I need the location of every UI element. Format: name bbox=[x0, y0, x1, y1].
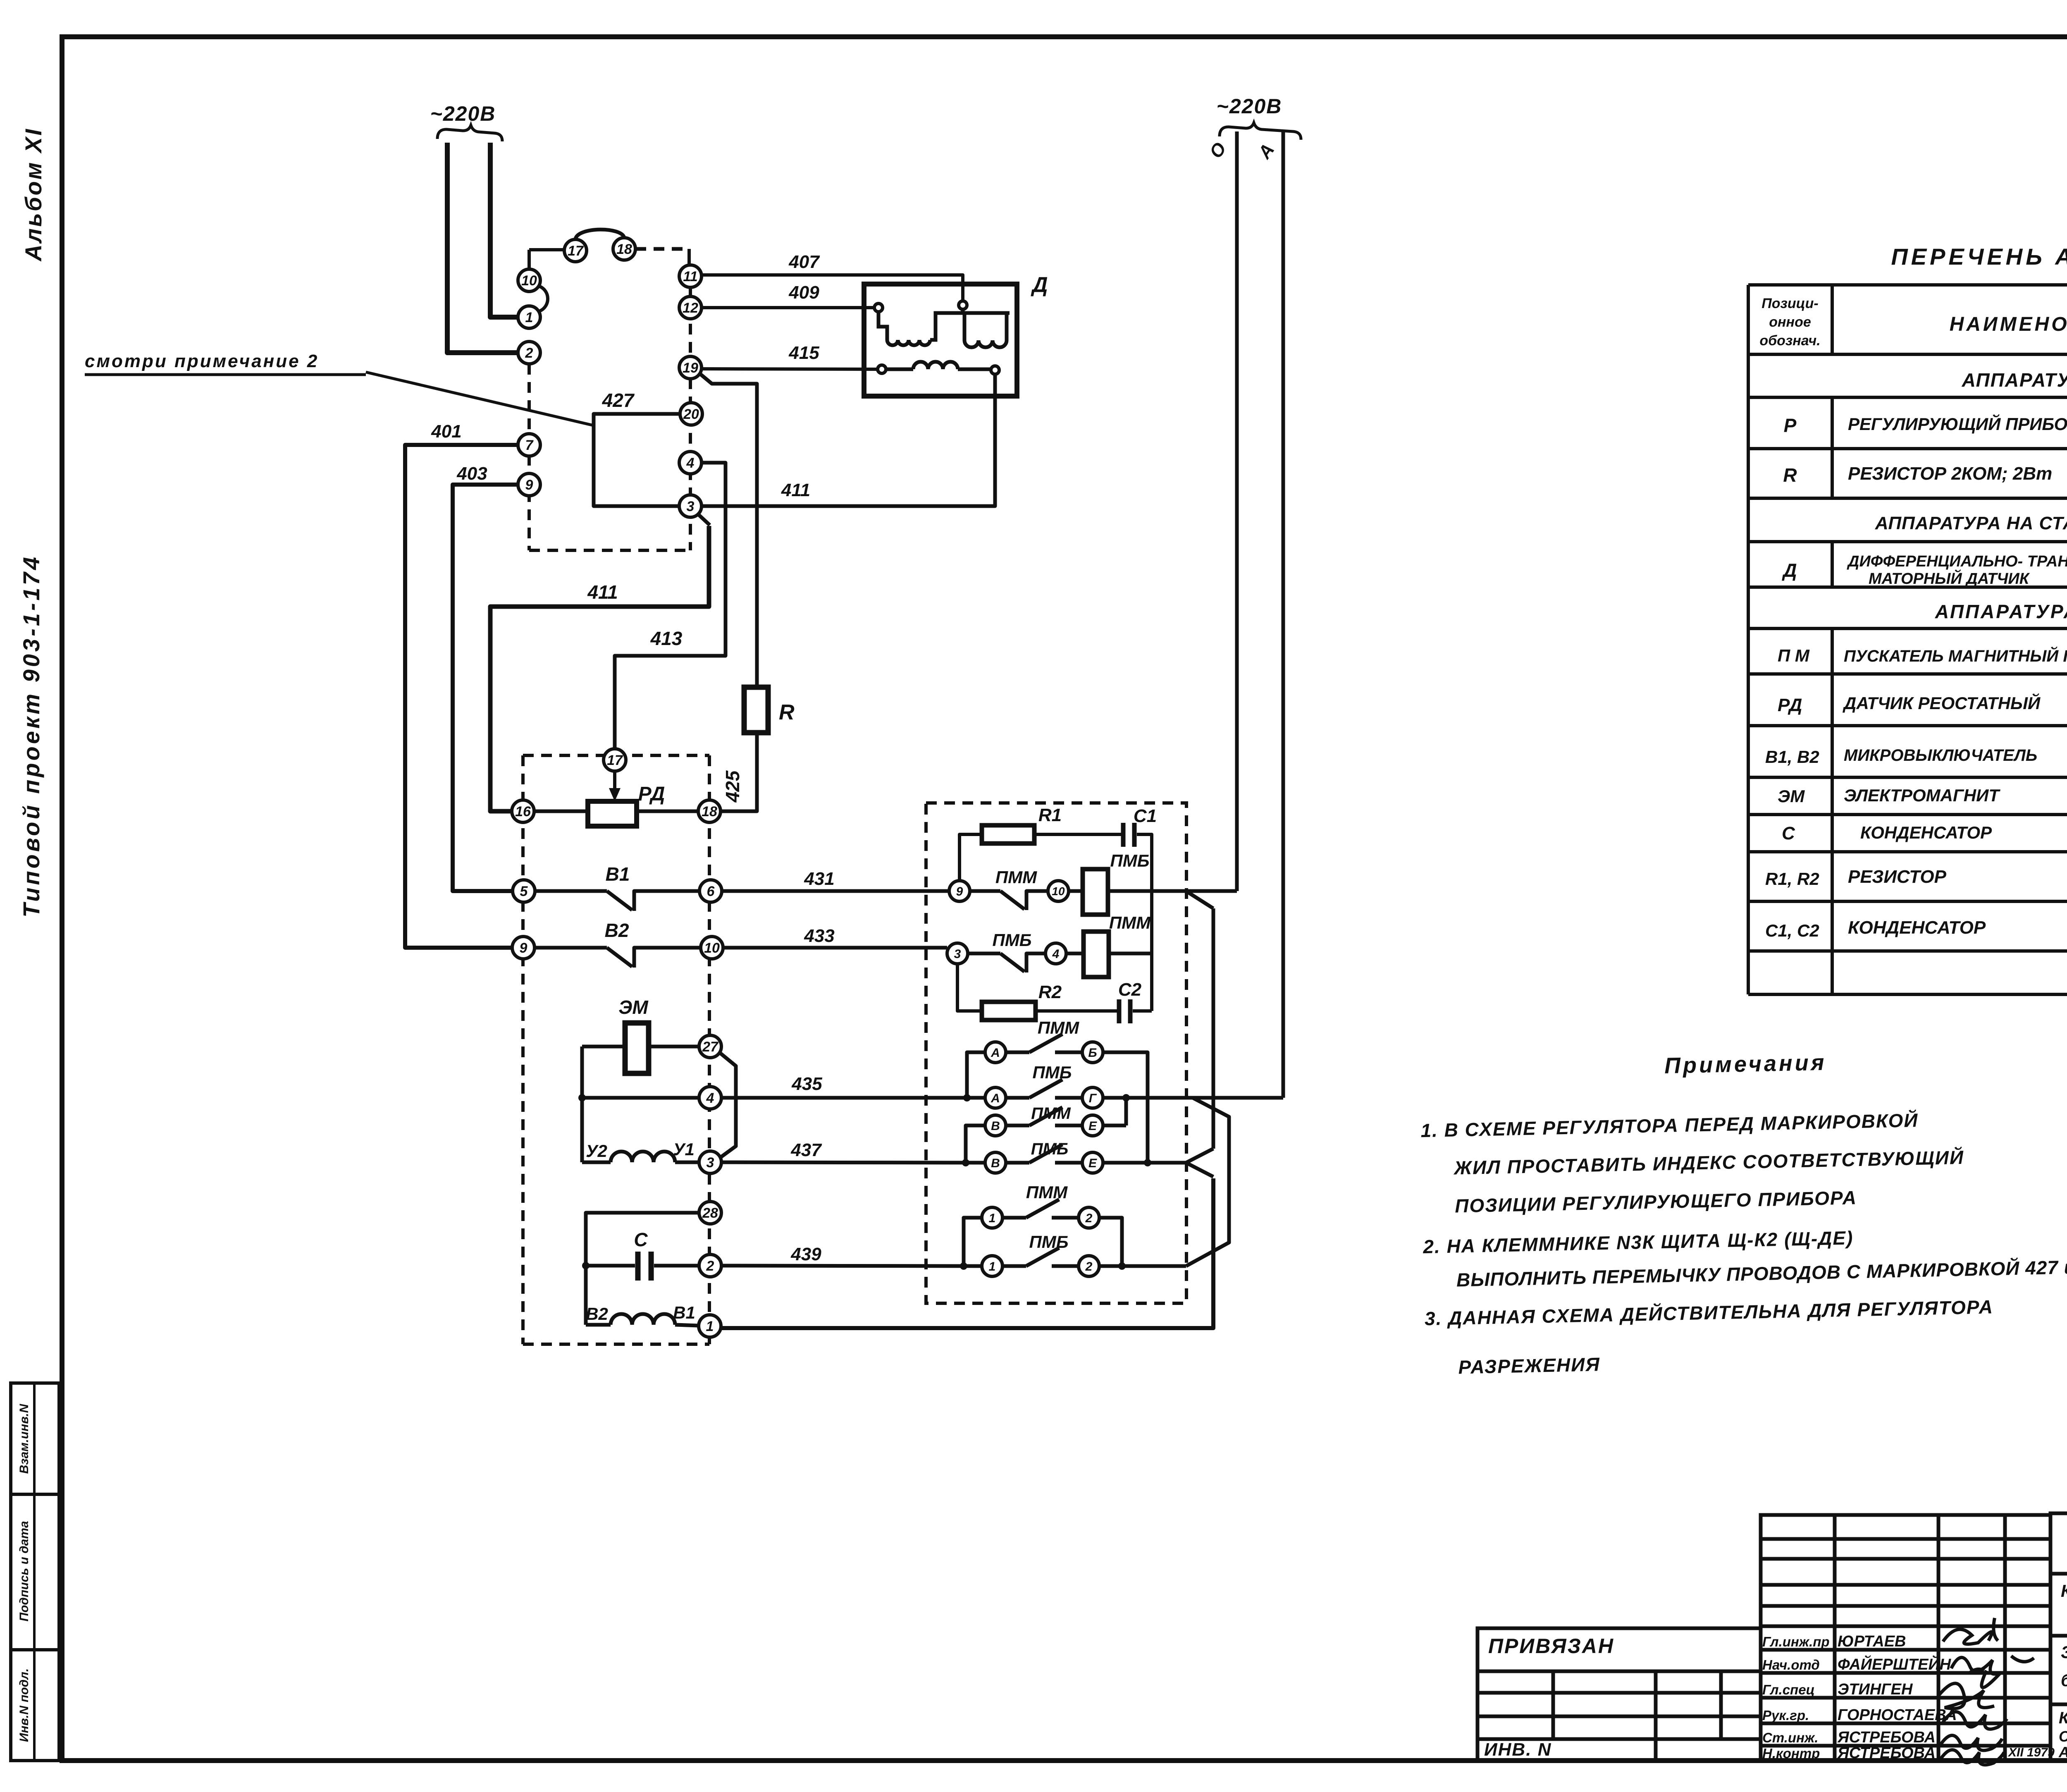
svg-text:смотри примечание 2: смотри примечание 2 bbox=[85, 351, 319, 371]
riser O-net bbox=[1212, 908, 1215, 1149]
svg-text:Взам.инв.N: Взам.инв.N bbox=[17, 1403, 31, 1474]
svg-text:ПММ: ПММ bbox=[1109, 913, 1151, 932]
svg-text:4: 4 bbox=[686, 455, 695, 471]
terminal E1 bbox=[1082, 1115, 1103, 1136]
terminal 17 rd bbox=[604, 749, 626, 771]
terminal A2 bbox=[985, 1087, 1006, 1108]
svg-text:10: 10 bbox=[1052, 885, 1065, 898]
terminal 7 bbox=[518, 434, 540, 456]
svg-text:АППАРАТУРА НА СТАТИВЕ МЕСТН: АППАРАТУРА НА СТАТИВЕ МЕСТНЫХ ПРИБОРОВ bbox=[1875, 513, 2067, 533]
svg-text:409: 409 bbox=[788, 282, 819, 303]
wire 9 to R1 bbox=[960, 834, 982, 880]
wire EM branch vertical bbox=[580, 1047, 584, 1162]
node 411 bbox=[991, 366, 999, 374]
svg-text:431: 431 bbox=[804, 869, 834, 889]
wire 1-2 bbox=[1002, 1216, 1026, 1220]
contact blade 1-2 bbox=[1026, 1199, 1059, 1218]
wire C2 right bbox=[1133, 1009, 1152, 1013]
stamp box vzam.inv bbox=[11, 1383, 59, 1494]
svg-text:В1: В1 bbox=[673, 1303, 695, 1322]
svg-text:ФАЙЕРШТЕЙН: ФАЙЕРШТЕЙН bbox=[1838, 1655, 1952, 1673]
svg-text:R: R bbox=[779, 700, 795, 724]
wire C1-C2 riser bbox=[1137, 834, 1152, 1011]
wire A-B bbox=[1006, 1051, 1029, 1054]
svg-text:НАИМЕНОВАНИЕ: НАИМЕНОВАНИЕ bbox=[1950, 313, 2067, 335]
stamp box inv.n podl bbox=[11, 1650, 59, 1761]
svg-text:17: 17 bbox=[607, 753, 623, 768]
coil B2-B1 bbox=[586, 1314, 698, 1326]
svg-text:433: 433 bbox=[804, 926, 834, 946]
terminal 6 bbox=[699, 880, 722, 902]
terminal 20 bbox=[680, 403, 702, 425]
underline bbox=[85, 373, 366, 376]
svg-text:403: 403 bbox=[456, 464, 487, 484]
wire 431 bbox=[722, 889, 949, 893]
svg-text:П М: П М bbox=[1778, 646, 1810, 665]
svg-text:МИКРОВЫКЛЮЧАТЕЛЬ: МИКРОВЫКЛЮЧАТЕЛЬ bbox=[1844, 746, 2037, 765]
terminal 28 bbox=[699, 1202, 721, 1224]
svg-text:Р: Р bbox=[1784, 415, 1797, 436]
svg-text:4: 4 bbox=[706, 1090, 714, 1106]
wire G to E bbox=[1124, 1098, 1128, 1125]
svg-text:обознач.: обознач. bbox=[1759, 333, 1820, 349]
terminal 18 top bbox=[613, 238, 635, 260]
bracket V bbox=[966, 1125, 985, 1160]
svg-text:ПМБ: ПМБ bbox=[1031, 1140, 1068, 1158]
wire N phase to terminal 1 bbox=[490, 143, 517, 317]
svg-text:R: R bbox=[1783, 464, 1797, 486]
svg-text:407: 407 bbox=[788, 252, 820, 272]
contact blade A-B bbox=[1029, 1034, 1062, 1052]
svg-text:Нач.отд: Нач.отд bbox=[1762, 1657, 1820, 1673]
wire EM to 27 bbox=[649, 1045, 699, 1049]
wire 415 bbox=[702, 369, 878, 369]
capacitor C2 bbox=[1117, 999, 1122, 1023]
wire V-E2 bbox=[1006, 1161, 1029, 1165]
terminal 1 bbox=[518, 306, 540, 328]
wire 433 bbox=[723, 946, 947, 950]
svg-text:19: 19 bbox=[683, 360, 698, 376]
terminal 1a bbox=[982, 1207, 1002, 1228]
svg-text:Е: Е bbox=[1088, 1156, 1097, 1170]
svg-text:РЕГУЛИРУЮЩИЙ ПРИБОР Р25.1.2 ~2: РЕГУЛИРУЮЩИЙ ПРИБОР Р25.1.2 ~220В bbox=[1848, 413, 2067, 434]
dashed terminal strip bottom bbox=[529, 549, 690, 552]
junction bbox=[962, 1159, 969, 1166]
svg-text:С1, С2: С1, С2 bbox=[1765, 921, 1819, 940]
svg-text:РЕЗИСТОР: РЕЗИСТОР bbox=[1848, 867, 1947, 887]
terminal 12 bbox=[679, 296, 702, 319]
svg-text:9: 9 bbox=[956, 885, 963, 898]
svg-text:А: А bbox=[991, 1046, 1000, 1060]
svg-text:СХЕМАЭЛЕКТРИЧЕСКАЯ ПРИНЦИПИ-: СХЕМАЭЛЕКТРИЧЕСКАЯ ПРИНЦИПИ- bbox=[2059, 1728, 2067, 1745]
dashed PM box bbox=[926, 803, 1186, 1303]
dashed mechanism box bbox=[523, 755, 709, 1344]
svg-text:В: В bbox=[991, 1119, 1000, 1133]
bracket B to 437 bbox=[1103, 1052, 1148, 1160]
brace left bbox=[437, 125, 502, 141]
terminal 2 em bbox=[699, 1254, 721, 1277]
node 409 bbox=[874, 303, 883, 312]
svg-text:3: 3 bbox=[707, 1155, 714, 1171]
junction bbox=[1118, 1262, 1126, 1270]
svg-text:Н.контр: Н.контр bbox=[1762, 1746, 1820, 1761]
rheostat RD bbox=[588, 801, 637, 826]
svg-text:ПРИВЯЗАН: ПРИВЯЗАН bbox=[1488, 1634, 1614, 1658]
dashed terminal strip right column bbox=[689, 287, 692, 550]
wire 28 branch bbox=[586, 1213, 699, 1325]
capacitor C bbox=[635, 1252, 641, 1281]
svg-text:ДИФФЕРЕНЦИАЛЬНО- ТРАНСФОР-: ДИФФЕРЕНЦИАЛЬНО- ТРАНСФОР- bbox=[1847, 553, 2067, 570]
svg-text:17: 17 bbox=[568, 243, 584, 259]
svg-text:Позици-: Позици- bbox=[1761, 296, 1818, 311]
svg-text:4: 4 bbox=[1052, 947, 1060, 961]
wire terminal 1 to O-net riser bbox=[721, 1178, 1213, 1328]
wire down to 10 bbox=[527, 250, 531, 269]
svg-text:413: 413 bbox=[650, 628, 683, 649]
junction bbox=[1122, 1094, 1130, 1101]
svg-text:28: 28 bbox=[702, 1205, 718, 1221]
svg-text:АППАРАТУРА НА ЩИТЕ УПРАВ: АППАРАТУРА НА ЩИТЕ УПРАВЛЕНИЯ bbox=[1962, 369, 2067, 391]
wire 403 bbox=[453, 485, 519, 891]
wire to 4 bbox=[1026, 953, 1045, 972]
terminal 10 pm bbox=[1048, 881, 1069, 901]
svg-text:Примечания: Примечания bbox=[1664, 1050, 1827, 1078]
svg-text:2: 2 bbox=[706, 1258, 714, 1274]
jumper arc 17-18 bbox=[575, 229, 624, 239]
wire to 10 bbox=[1026, 891, 1048, 910]
wire PMB to O line bbox=[1108, 889, 1237, 893]
svg-text:ЯСТРЕБОВА: ЯСТРЕБОВА bbox=[1837, 1744, 1936, 1762]
svg-text:Инв.N подл.: Инв.N подл. bbox=[17, 1668, 31, 1742]
wire L phase to terminal 2 bbox=[447, 143, 518, 353]
svg-text:425: 425 bbox=[722, 770, 743, 803]
svg-text:Котельная с 4 котлами DЕ-: Котельная с 4 котлами DЕ-10-14гм. bbox=[2061, 1581, 2067, 1601]
svg-text:С2: С2 bbox=[1118, 980, 1142, 1000]
svg-text:КОНДЕНСАТОР: КОНДЕНСАТОР bbox=[1848, 918, 1986, 938]
terminal V1 bbox=[985, 1115, 1006, 1136]
terminal B bbox=[1082, 1042, 1103, 1063]
contact PMB blade bbox=[1000, 953, 1024, 972]
wire top to terminal 17 bbox=[529, 248, 564, 251]
svg-text:ДАТЧИК РЕОСТАТНЫЙ: ДАТЧИК РЕОСТАТНЫЙ bbox=[1843, 693, 2041, 713]
leader line to 427 jumper bbox=[366, 372, 594, 425]
svg-text:бетонных конструкций: бетонных конструкций bbox=[2061, 1670, 2067, 1690]
svg-text:1: 1 bbox=[989, 1260, 996, 1274]
wire R2 to C2 bbox=[1036, 1009, 1117, 1013]
wire 411 lower bbox=[490, 526, 709, 811]
terminal 4 em bbox=[699, 1087, 721, 1109]
svg-text:А: А bbox=[991, 1092, 1000, 1105]
wire 4 row bbox=[582, 1096, 699, 1100]
wire 425 R to 18 bbox=[721, 733, 757, 811]
svg-text:С1: С1 bbox=[1134, 806, 1157, 826]
wire 411 to sensor bbox=[701, 374, 995, 506]
jumper bracket 10-1 bbox=[539, 286, 548, 311]
svg-text:18: 18 bbox=[616, 241, 632, 257]
svg-text:7: 7 bbox=[525, 437, 534, 453]
svg-text:3: 3 bbox=[954, 947, 961, 961]
svg-text:Е: Е bbox=[1088, 1119, 1097, 1133]
terminal A1 bbox=[985, 1042, 1006, 1063]
terminal 3 em bbox=[699, 1151, 721, 1173]
svg-text:3: 3 bbox=[687, 499, 695, 514]
terminal 9 b2 bbox=[512, 937, 535, 959]
terminal 3 pm bbox=[947, 943, 968, 964]
wire corner down to 11 bbox=[687, 249, 691, 265]
svg-text:В2: В2 bbox=[605, 920, 629, 941]
terminal 1 em bbox=[699, 1315, 721, 1337]
svg-text:Г: Г bbox=[1089, 1092, 1097, 1105]
svg-text:ЭТИНГЕН: ЭТИНГЕН bbox=[1838, 1681, 1913, 1698]
terminal 16 bbox=[512, 800, 534, 822]
node 415 bbox=[878, 365, 886, 373]
terminal 5 bbox=[513, 880, 535, 902]
terminal 1b bbox=[982, 1256, 1002, 1276]
wire 4 to PMM coil bbox=[1066, 952, 1084, 956]
sensor D box bbox=[864, 284, 1017, 396]
svg-text:2: 2 bbox=[1085, 1260, 1093, 1274]
svg-text:ПМБ: ПМБ bbox=[1029, 1232, 1069, 1252]
wire 5 to blade B1 bbox=[535, 889, 607, 893]
svg-text:439: 439 bbox=[790, 1244, 821, 1264]
wire 427 jumper bbox=[594, 414, 680, 506]
terminal 2a bbox=[1079, 1207, 1099, 1228]
svg-text:ПММ: ПММ bbox=[995, 867, 1037, 887]
contact blade V-E2 bbox=[1029, 1144, 1062, 1163]
terminal 18 rd bbox=[698, 800, 721, 822]
junction bbox=[963, 1094, 971, 1101]
wire 435 bbox=[721, 1096, 985, 1100]
electromagnet EM bbox=[625, 1023, 649, 1073]
wire 407 bbox=[702, 275, 963, 305]
wiper wire bbox=[613, 771, 616, 795]
capacitor C1 bbox=[1121, 823, 1126, 847]
svg-text:411: 411 bbox=[781, 480, 810, 500]
contact blade V-E bbox=[1029, 1107, 1062, 1125]
terminal 10 bbox=[518, 269, 540, 291]
terminal 9 pm bbox=[949, 881, 970, 901]
wire 9 to blade bbox=[970, 889, 1000, 893]
svg-text:~220В: ~220В bbox=[430, 102, 496, 125]
svg-text:В: В bbox=[991, 1156, 1000, 1170]
svg-text:Котел ДЕ-10-14ГМ N1 (2,3,4): Котел ДЕ-10-14ГМ N1 (2,3,4) bbox=[2059, 1709, 2067, 1727]
wire 9 to blade B2 bbox=[535, 946, 607, 950]
wire A line bbox=[1282, 131, 1285, 1098]
terminal 4 pm bbox=[1045, 943, 1066, 964]
relay coil PMB bbox=[1083, 869, 1108, 915]
terminal 17 top bbox=[564, 239, 587, 262]
svg-text:11: 11 bbox=[683, 269, 697, 284]
svg-text:R1, R2: R1, R2 bbox=[1765, 869, 1819, 889]
svg-text:У1: У1 bbox=[673, 1140, 695, 1159]
wire 437 bbox=[721, 1162, 985, 1163]
svg-text:В2: В2 bbox=[586, 1304, 608, 1324]
terminal 27 bbox=[699, 1035, 721, 1058]
svg-text:Гл.инж.пр: Гл.инж.пр bbox=[1762, 1634, 1830, 1649]
svg-text:РД: РД bbox=[1778, 695, 1802, 715]
svg-text:У2: У2 bbox=[586, 1141, 607, 1161]
svg-text:18: 18 bbox=[702, 804, 717, 820]
wire EM left bbox=[582, 1045, 625, 1049]
svg-text:411: 411 bbox=[587, 581, 618, 603]
svg-text:РАЗРЕЖЕНИЯ: РАЗРЕЖЕНИЯ bbox=[1458, 1353, 1600, 1378]
dashed wire 18 to corner bbox=[635, 247, 689, 251]
resistor R1 bbox=[982, 825, 1034, 843]
wire blade to 6 bbox=[634, 891, 699, 911]
junction bbox=[960, 1262, 967, 1270]
junction bbox=[1144, 1159, 1151, 1166]
svg-text:РД: РД bbox=[638, 783, 665, 805]
switch B1 blade bbox=[607, 891, 632, 910]
wire RD to 18 bbox=[637, 810, 699, 813]
svg-text:9: 9 bbox=[520, 940, 527, 956]
svg-text:6: 6 bbox=[707, 884, 715, 899]
wire 409 bbox=[702, 306, 874, 309]
svg-text:АППАРАТУРА ПО МЕСТУ: АППАРАТУРА ПО МЕСТУ bbox=[1935, 601, 2067, 622]
svg-text:онное: онное bbox=[1769, 314, 1811, 330]
svg-text:12: 12 bbox=[683, 300, 698, 316]
svg-text:~220В: ~220В bbox=[1217, 95, 1282, 118]
fork 437 to riser bbox=[1186, 1149, 1213, 1177]
svg-text:В1, В2: В1, В2 bbox=[1765, 747, 1819, 767]
sensor D windings bbox=[878, 309, 1010, 369]
svg-text:ЭМ: ЭМ bbox=[618, 996, 649, 1018]
wire 3 to R2 bbox=[957, 964, 982, 1011]
resistor R bbox=[744, 687, 768, 733]
svg-text:ИНВ. N: ИНВ. N bbox=[1484, 1739, 1551, 1760]
svg-text:КОНДЕНСАТОР: КОНДЕНСАТОР bbox=[1860, 823, 1992, 842]
bracket A bbox=[967, 1052, 985, 1095]
wire row 10 to O line bbox=[1070, 889, 1237, 893]
svg-text:РЕЗИСТОР 2КОМ; 2Вm: РЕЗИСТОР 2КОМ; 2Вm bbox=[1848, 464, 2052, 484]
wire C left bbox=[586, 1264, 635, 1268]
svg-text:Здание из сборных железо-: Здание из сборных железо- bbox=[2061, 1642, 2067, 1662]
svg-text:1: 1 bbox=[706, 1319, 714, 1334]
svg-text:ГОРНОСТАЕВА: ГОРНОСТАЕВА bbox=[1838, 1706, 1957, 1724]
terminal 10 b2 bbox=[701, 937, 723, 959]
svg-text:Д: Д bbox=[1781, 559, 1797, 581]
terminal 19 bbox=[679, 356, 702, 379]
svg-text:2: 2 bbox=[1085, 1211, 1093, 1225]
notes block bbox=[1419, 1044, 2067, 1379]
terminal 2 bbox=[518, 342, 540, 364]
diagonal riser to row 10 bbox=[1187, 892, 1213, 908]
terminal E2 bbox=[1082, 1152, 1103, 1173]
wire 435 to A line bbox=[1103, 1096, 1283, 1100]
wire 3 to blade bbox=[968, 952, 1000, 956]
svg-text:10: 10 bbox=[704, 940, 720, 956]
contact blade A-G bbox=[1029, 1080, 1062, 1098]
contact PMM blade bbox=[1000, 891, 1024, 909]
wire V-E bbox=[1006, 1124, 1029, 1128]
svg-text:415: 415 bbox=[788, 343, 819, 363]
svg-text:АЛЬНАЯ РЕГУЛЯТОРА УРОВНЯ: АЛЬНАЯ РЕГУЛЯТОРА УРОВНЯ bbox=[2058, 1744, 2067, 1761]
svg-text:R2: R2 bbox=[1038, 982, 1062, 1002]
wire 401 bbox=[405, 445, 518, 948]
svg-text:437: 437 bbox=[790, 1140, 822, 1160]
coil U2-U1 bbox=[582, 1152, 698, 1162]
svg-text:Б: Б bbox=[1088, 1046, 1097, 1060]
wire blade to 10 bbox=[634, 948, 699, 968]
wire A-G bbox=[1006, 1096, 1029, 1100]
wire O line bbox=[1235, 131, 1239, 891]
dashed terminal strip left column bbox=[527, 364, 531, 550]
svg-text:С: С bbox=[1782, 823, 1795, 843]
relay coil PMM bbox=[1084, 932, 1109, 977]
wire 439 bbox=[721, 1266, 981, 1266]
svg-text:Альбом XI: Альбом XI bbox=[20, 127, 46, 262]
svg-text:XII 1979: XII 1979 bbox=[2007, 1746, 2055, 1759]
wiper arrow bbox=[609, 788, 621, 801]
wire 1-2b bbox=[1002, 1264, 1026, 1268]
node 407 bbox=[959, 301, 967, 309]
svg-text:ПММ: ПММ bbox=[1026, 1183, 1068, 1202]
terminal 2b bbox=[1079, 1256, 1099, 1276]
wire 413 bbox=[615, 463, 726, 749]
terminal 3 bbox=[679, 495, 702, 517]
svg-text:ПУСКАТЕЛЬ МАГНИТНЫЙ ПМЕ-083,~2: ПУСКАТЕЛЬ МАГНИТНЫЙ ПМЕ-083,~220В bbox=[1844, 646, 2067, 665]
svg-text:5: 5 bbox=[520, 884, 528, 899]
terminal G bbox=[1082, 1087, 1103, 1108]
svg-text:ЮРТАЕВ: ЮРТАЕВ bbox=[1838, 1633, 1906, 1650]
svg-text:ПМБ: ПМБ bbox=[993, 930, 1032, 950]
svg-text:МАТОРНЫЙ ДАТЧИК: МАТОРНЫЙ ДАТЧИК bbox=[1869, 569, 2030, 588]
wire 19 to resistor R bbox=[699, 373, 757, 687]
bracket 2 bbox=[1099, 1218, 1122, 1263]
wire bypass 27 to 3 bbox=[720, 1053, 736, 1157]
svg-text:Подпись и дата: Подпись и дата bbox=[17, 1521, 31, 1621]
svg-text:Гл.спец: Гл.спец bbox=[1762, 1682, 1815, 1697]
svg-text:10: 10 bbox=[521, 273, 537, 289]
brace right bbox=[1220, 123, 1301, 140]
svg-text:9: 9 bbox=[525, 477, 533, 493]
svg-text:Ст.инж.: Ст.инж. bbox=[1762, 1730, 1818, 1745]
wire R1 to C1 bbox=[1034, 833, 1121, 836]
svg-text:1: 1 bbox=[525, 310, 533, 325]
bracket 1 bbox=[964, 1218, 982, 1263]
svg-text:2: 2 bbox=[525, 345, 533, 361]
svg-text:401: 401 bbox=[431, 421, 461, 442]
svg-text:ЯСТРЕБОВА: ЯСТРЕБОВА bbox=[1837, 1729, 1936, 1746]
terminal 11 bbox=[679, 265, 702, 287]
svg-text:ПМБ: ПМБ bbox=[1033, 1063, 1072, 1082]
wire 3 diagonal bbox=[698, 514, 710, 525]
svg-text:27: 27 bbox=[702, 1039, 719, 1055]
svg-text:Рук.гр.: Рук.гр. bbox=[1762, 1708, 1809, 1723]
title block bbox=[1477, 1513, 2067, 1761]
svg-text:ЭЛЕКТРОМАГНИТ: ЭЛЕКТРОМАГНИТ bbox=[1844, 786, 2000, 805]
svg-text:ПЕРЕЧЕНЬ АППАРАТУРЫ: ПЕРЕЧЕНЬ АППАРАТУРЫ bbox=[1891, 244, 2067, 270]
svg-text:20: 20 bbox=[683, 406, 699, 422]
svg-text:ЭМ: ЭМ bbox=[1778, 786, 1805, 806]
junction bbox=[582, 1262, 590, 1269]
svg-text:R1: R1 bbox=[1038, 805, 1062, 825]
svg-text:435: 435 bbox=[791, 1074, 822, 1094]
switch B2 blade bbox=[607, 948, 632, 967]
signatures bbox=[1939, 1618, 2034, 1765]
svg-text:1: 1 bbox=[989, 1211, 996, 1225]
svg-text:Д: Д bbox=[1031, 273, 1048, 297]
terminal V2 bbox=[985, 1152, 1006, 1173]
wire A-net bracket bbox=[1186, 1098, 1229, 1266]
svg-text:Типовой проект 903-1-174: Типовой проект 903-1-174 bbox=[18, 554, 44, 918]
svg-text:С: С bbox=[634, 1229, 648, 1250]
svg-text:В1: В1 bbox=[606, 863, 630, 885]
wire PMM coil right bbox=[1109, 952, 1152, 956]
contact blade 1-2b bbox=[1026, 1248, 1059, 1266]
wire C to 2 bbox=[654, 1264, 699, 1268]
svg-text:16: 16 bbox=[515, 804, 531, 820]
